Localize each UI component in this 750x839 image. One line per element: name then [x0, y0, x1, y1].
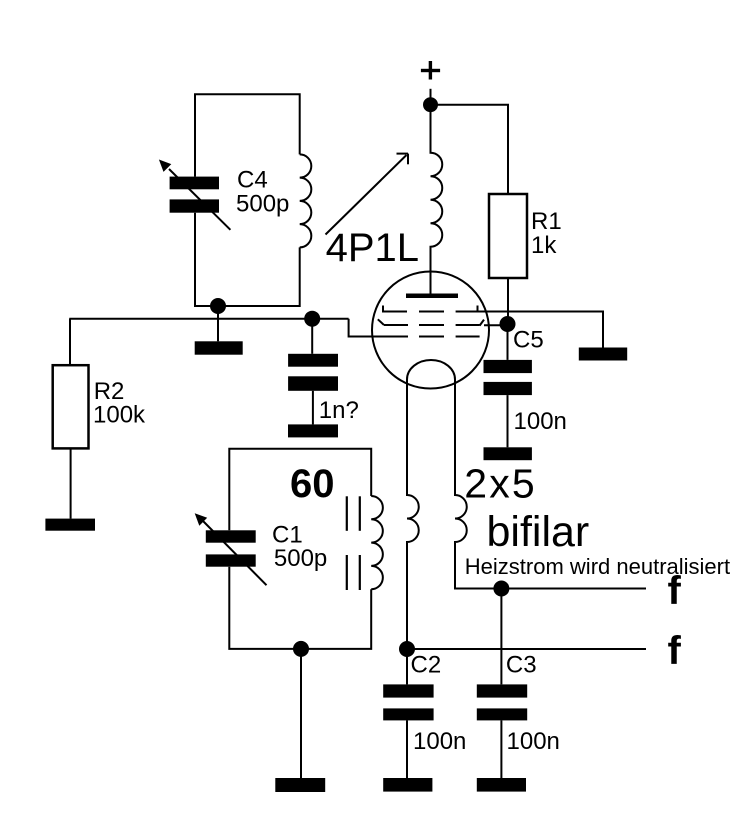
- grid g3 row: [382, 306, 478, 313]
- bifilar winding B right leg: [455, 380, 646, 589]
- wire g2 to node: [484, 324, 508, 326]
- capacitor C1 variable: [195, 513, 267, 585]
- wire f2 node to C2: [406, 649, 408, 684]
- svg-text:100n: 100n: [507, 728, 560, 755]
- core marks tank coil: [346, 496, 361, 590]
- wire C4 node to ground: [217, 306, 219, 341]
- wire C1 frame left top: [229, 449, 371, 531]
- svg-text:100n: 100n: [413, 728, 466, 755]
- capacitor C2: [383, 684, 433, 720]
- svg-text:Heizstrom wird neutralisiert: Heizstrom wird neutralisiert: [465, 554, 730, 579]
- grid g2 row: [378, 319, 484, 325]
- power terminal +: [421, 61, 440, 80]
- grid g1 row: [384, 336, 480, 338]
- svg-text:C4: C4: [237, 167, 268, 194]
- bifilar winding A left leg: [407, 380, 419, 650]
- node C4 bottom: [210, 298, 226, 314]
- ground g3: [579, 348, 627, 361]
- svg-text:100n: 100n: [514, 408, 567, 435]
- svg-text:500p: 500p: [236, 191, 289, 218]
- wire g3 to ground: [456, 312, 603, 348]
- wire C1 frame right bottom: [229, 567, 371, 649]
- node f2 junction: [399, 641, 415, 657]
- wire supply node to R1 top: [431, 105, 509, 194]
- svg-text:1k: 1k: [531, 232, 557, 259]
- node bus 1n junction: [304, 311, 320, 327]
- wire C3 to ground: [500, 720, 502, 778]
- svg-text:1n?: 1n?: [319, 397, 359, 424]
- inductor L1 anode coil: [431, 105, 443, 294]
- wire node to C5: [507, 324, 509, 360]
- svg-text:60: 60: [290, 462, 335, 506]
- wire C4 frame left top: [195, 94, 300, 176]
- svg-text:2x5: 2x5: [464, 460, 537, 506]
- capacitor C3: [477, 684, 527, 720]
- svg-text:f: f: [668, 569, 682, 613]
- svg-text:C3: C3: [506, 651, 537, 678]
- tube U1 envelope: [372, 272, 489, 389]
- capacitor 1n?: [288, 354, 338, 391]
- ground C3: [477, 778, 526, 792]
- node supply junction: [423, 97, 438, 112]
- wire + to supply node: [430, 89, 432, 105]
- ground R2: [45, 519, 95, 531]
- wire C4 frame right bottom: [195, 213, 300, 306]
- svg-text:C5: C5: [513, 327, 544, 354]
- ground C4: [195, 341, 243, 354]
- capacitor C4 variable: [159, 160, 231, 230]
- ground C1: [275, 778, 325, 792]
- wire R1 bottom to node C5: [507, 278, 509, 324]
- wire bus to R2: [69, 319, 71, 366]
- svg-text:500p: 500p: [274, 545, 327, 572]
- capacitor C5: [484, 360, 532, 395]
- wire grid bus: [69, 318, 348, 320]
- svg-text:100k: 100k: [93, 402, 146, 429]
- node C1 bottom: [293, 641, 309, 657]
- wire 1n to ground: [312, 391, 314, 425]
- svg-text:bifilar: bifilar: [487, 508, 590, 556]
- inductor L2 feedback coil: [300, 154, 312, 247]
- svg-text:C2: C2: [411, 651, 442, 678]
- wire node to capacitor 1n: [311, 319, 313, 354]
- inductor L3 tank coil: [371, 496, 383, 589]
- resistor R2: [53, 365, 89, 448]
- wire C1 node to ground: [300, 649, 302, 778]
- wire R2 to ground: [70, 448, 72, 518]
- filament arch: [407, 360, 455, 380]
- anode plate: [406, 294, 458, 299]
- resistor R1: [489, 194, 527, 278]
- wire f2 line: [407, 648, 646, 650]
- node f1 junction: [493, 581, 509, 597]
- annotation arrow 4P1L: [326, 154, 409, 235]
- ground 1n: [288, 424, 338, 437]
- ground C5: [484, 447, 532, 460]
- ground C2: [383, 778, 432, 792]
- svg-text:f: f: [668, 629, 682, 673]
- wire g1 lead-in from bus: [349, 319, 384, 337]
- svg-text:4P1L: 4P1L: [326, 226, 419, 270]
- svg-text:R1: R1: [531, 208, 562, 235]
- wire C2 to ground: [406, 720, 408, 778]
- wire C5 to ground: [507, 395, 509, 447]
- wire f1 node down to C3: [500, 589, 502, 685]
- node g2 R1 C5: [500, 316, 516, 332]
